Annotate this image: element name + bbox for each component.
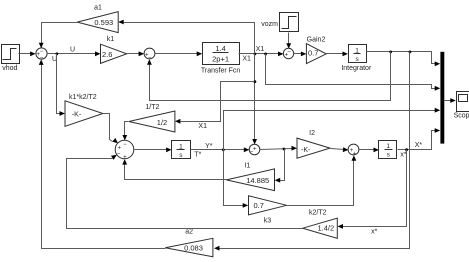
svg-text:Gain2: Gain2 [307, 37, 326, 44]
gain 1/T2 [129, 104, 175, 132]
integrator block 1/s (Y*) [172, 141, 191, 159]
svg-text:−: − [40, 55, 44, 61]
wire I1 branch down to gain 14.885 [275, 149, 285, 183]
svg-text:−: − [123, 142, 127, 148]
svg-text:a1: a1 [94, 4, 102, 11]
wire x*: out to mux input 4, junction dot [398, 128, 441, 158]
scope [454, 92, 469, 120]
wire mux to scope [445, 98, 456, 103]
svg-text:-K-: -K- [72, 111, 82, 118]
svg-text:1/T2: 1/T2 [145, 104, 159, 111]
svg-text:U: U [70, 47, 75, 54]
svg-text:14.885: 14.885 [246, 176, 269, 185]
integrator block 1/s [341, 45, 372, 73]
gain I2 [297, 130, 330, 158]
gain a2 [165, 229, 213, 257]
sum S5 [348, 144, 359, 157]
sum S2 [283, 48, 293, 58]
wire Y* branch up to mux input 3 [224, 108, 441, 150]
gain k2/T2 [303, 209, 338, 238]
svg-text:1/2: 1/2 [157, 118, 167, 127]
wire x* branch down to gain k2/T2 [338, 150, 407, 236]
wire 14.885 to big sum bottom [122, 159, 226, 179]
wire k2/T2 to big sum lower-left [67, 155, 303, 229]
wire X1 branch down, dot at 81.6, to I1 top [252, 54, 257, 145]
wire S5 to integrator 1/s x* [360, 148, 380, 153]
wire Y* branch down to gain k3 [224, 150, 249, 208]
svg-text:2.6: 2.6 [102, 50, 112, 59]
wire sum3 to Transfer Fcn [155, 51, 203, 56]
svg-text:X*: X* [415, 142, 423, 149]
wire integrator feedback to sum3 bottom [147, 52, 391, 101]
gain k1*k2/T2 [65, 94, 103, 127]
svg-text:k1: k1 [107, 36, 115, 43]
svg-text:vhod: vhod [2, 65, 17, 72]
svg-text:+: + [253, 147, 257, 153]
wire a1 to sum1 top [39, 23, 78, 49]
wire I2 to sum S5 [331, 147, 349, 152]
gain a1 [77, 4, 118, 32]
wire k3 to sum S5 bottom [287, 155, 357, 205]
wire U branch down to gain k1*k2/T2 [57, 54, 66, 116]
wire X1 branch to gain 1/T2 [175, 82, 255, 131]
integrator block 1/s (x*) [379, 141, 397, 159]
svg-text:k2/T2: k2/T2 [309, 209, 327, 216]
wire Y*: 1/s out to sum I1, junction dot [191, 143, 250, 159]
wire sum2 to Gain2 [294, 52, 307, 57]
gain k3 [249, 196, 287, 225]
svg-text:X1: X1 [198, 123, 207, 130]
sum I1 [244, 144, 259, 169]
wire X1 branch to mux input 2 [266, 54, 441, 91]
wire vhod to sum1 [19, 51, 36, 56]
svg-text:k1*k2/T2: k1*k2/T2 [69, 94, 97, 101]
svg-text:-K-: -K- [301, 147, 311, 154]
sum S3 [144, 48, 155, 61]
svg-text:1.4: 1.4 [215, 44, 225, 53]
svg-text:vozm: vozm [261, 21, 278, 28]
svg-text:−: − [250, 149, 254, 155]
svg-text:0.7: 0.7 [253, 201, 263, 210]
wire X1 up to gain a1 [118, 20, 254, 54]
wire I1 out to gain I2, junction dot [260, 146, 298, 151]
svg-text:−: − [287, 49, 291, 55]
gain k1 [101, 36, 127, 64]
svg-text:+: + [353, 151, 357, 157]
big sum S4 [115, 140, 134, 161]
svg-text:+: + [123, 155, 127, 161]
svg-text:Scope: Scope [454, 112, 469, 119]
wire a2 to sum1 bottom [39, 59, 166, 248]
svg-text:X1: X1 [256, 46, 265, 53]
wire X1: TF out to sum2, junction dots [239, 46, 284, 63]
svg-text:0.7: 0.7 [308, 48, 318, 57]
transfer fcn block 1.4/(2p+1) [201, 43, 241, 75]
svg-text:2p+1: 2p+1 [212, 55, 229, 64]
svg-text:x*: x* [371, 228, 378, 235]
wire 1/T2 to big sum top [122, 122, 128, 141]
svg-text:0.083: 0.083 [184, 243, 203, 252]
step source vhod [2, 45, 20, 73]
svg-text:−: − [40, 49, 44, 55]
svg-text:Transfer Fcn: Transfer Fcn [201, 67, 241, 74]
wire big sum to integrator 1/s Y* [135, 147, 172, 152]
svg-text:T*: T* [194, 152, 201, 159]
wire integrator out to mux input 1, junction dots [367, 51, 441, 67]
wire k1*k2/T2 to big sum upper-left [103, 114, 119, 144]
svg-text:I1: I1 [244, 162, 250, 169]
svg-text:Y*: Y* [205, 143, 213, 150]
svg-text:0.593: 0.593 [94, 18, 113, 27]
svg-text:I2: I2 [309, 130, 315, 137]
svg-text:−: − [148, 55, 152, 61]
svg-text:x*: x* [400, 152, 407, 159]
gain Gain2 [306, 37, 326, 64]
svg-text:X1: X1 [242, 56, 251, 63]
step source vozm [261, 13, 298, 32]
gain 14.885 [226, 169, 274, 191]
svg-text:1.4/2: 1.4/2 [317, 223, 334, 232]
svg-text:−: − [117, 151, 121, 157]
svg-text:k3: k3 [264, 217, 272, 224]
svg-text:Integrator: Integrator [341, 65, 372, 72]
mux [440, 52, 444, 144]
svg-text:a2: a2 [185, 229, 193, 236]
sum S1 [36, 48, 47, 61]
wire vozm to sum2 top [286, 33, 291, 49]
wire integrator branch down to gain a2 [214, 52, 410, 251]
wire k1 to sum3 [127, 51, 145, 56]
wire U: sum1 to k1 with branch dot [47, 47, 101, 64]
wire Gain2 to Integrator [327, 52, 349, 57]
